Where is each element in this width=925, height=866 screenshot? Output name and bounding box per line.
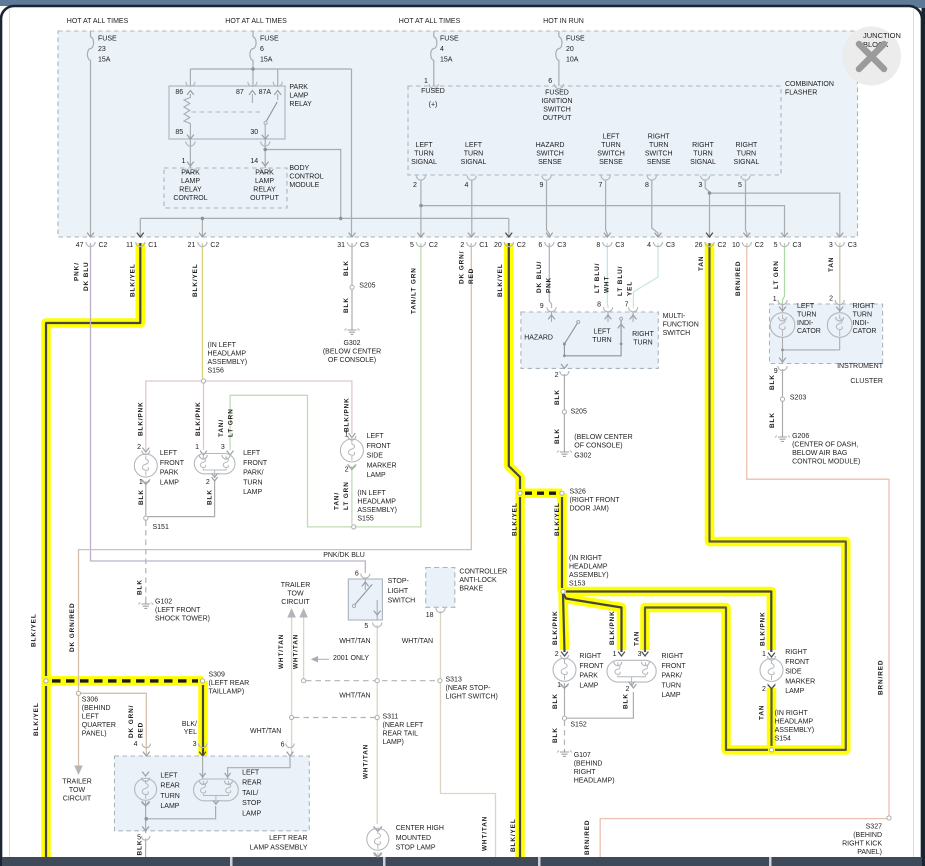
ground G102 [145, 601, 147, 604]
wire flasher pin 3 to 26 C2 [705, 180, 709, 237]
svg-text:HAZARD: HAZARD [524, 335, 553, 342]
wire BLK/PNK S156 to left front park lamp pin 2 [146, 381, 204, 450]
svg-text:TOW: TOW [287, 591, 304, 598]
svg-text:WHT: WHT [603, 276, 610, 293]
svg-text:SIGNAL: SIGNAL [734, 159, 760, 166]
svg-text:WHT/TAN: WHT/TAN [278, 634, 285, 669]
svg-text:FRONT: FRONT [662, 663, 687, 670]
svg-text:SWITCH: SWITCH [536, 151, 564, 158]
wire BLK S205 to G302 [563, 415, 565, 450]
svg-text:5: 5 [364, 623, 368, 630]
svg-text:DK BLU/: DK BLU/ [536, 261, 543, 293]
svg-text:FUSE: FUSE [440, 36, 459, 43]
svg-text:C3: C3 [848, 242, 857, 249]
svg-text:9: 9 [540, 182, 544, 189]
wire flasher pin 8 to 4 C3 [652, 180, 658, 237]
svg-text:DK GRN/: DK GRN/ [458, 251, 465, 284]
svg-text:PARK: PARK [181, 170, 200, 177]
svg-text:HOT AT ALL TIMES: HOT AT ALL TIMES [67, 18, 129, 25]
lamp right turn indicator U-R [827, 313, 852, 338]
svg-text:PANEL): PANEL) [857, 849, 882, 856]
svg-text:BRAKE: BRAKE [459, 586, 483, 593]
svg-text:SWITCH: SWITCH [543, 107, 571, 114]
wire BLK/PNK: S153 diagonal to park/turn pin 1 [563, 593, 622, 650]
svg-text:(IN LEFT: (IN LEFT [357, 490, 386, 497]
ground G302 below console [351, 327, 353, 330]
ABS pin 18 bump [436, 608, 445, 613]
svg-text:TURN: TURN [601, 142, 620, 149]
svg-text:2: 2 [137, 444, 141, 451]
svg-text:2: 2 [555, 651, 559, 658]
svg-text:1: 1 [773, 296, 777, 303]
svg-text:SENSE: SENSE [599, 159, 623, 166]
svg-text:IGNITION: IGNITION [541, 98, 572, 105]
wire BLK/PNK: S153 to right front park lamp pin 2 [563, 592, 565, 651]
wire WHT/TAN stop switch pin 5 through S313 S311 to center lamp [376, 625, 378, 824]
multi-function switch box [521, 312, 658, 368]
svg-text:WHT/TAN: WHT/TAN [402, 638, 433, 645]
svg-text:(LEFT FRONT: (LEFT FRONT [155, 607, 201, 614]
svg-text:TAILLAMP): TAILLAMP) [209, 689, 245, 696]
wire BLK left park/turn pin 2 to S151 [148, 481, 215, 517]
wire BLK/YEL highlighted: 11 C1 to S309 to bottom [46, 243, 140, 857]
wire TAN/LT GRN 5 C2 to S155 [356, 243, 421, 527]
left rear lamp assembly box [115, 756, 310, 831]
svg-text:LEFT: LEFT [242, 770, 260, 777]
svg-text:S313: S313 [446, 677, 462, 684]
svg-text:SWITCH: SWITCH [388, 598, 416, 605]
svg-text:LAMP: LAMP [662, 692, 681, 699]
wire DK GRN/RED S306 to trailer tow [78, 696, 80, 767]
wire DK GRN/RED 2 C1 to S306 [79, 243, 472, 691]
svg-text:MODULE: MODULE [289, 182, 319, 189]
wire bus drop 21 C2 [201, 218, 203, 237]
svg-text:20: 20 [566, 46, 574, 53]
svg-text:RELAY: RELAY [253, 187, 276, 194]
svg-text:85: 85 [175, 129, 183, 136]
svg-text:(BELOW CENTER: (BELOW CENTER [323, 349, 381, 356]
svg-text:FUSE: FUSE [98, 36, 117, 43]
close X strokes [859, 44, 884, 69]
splice node S326R [560, 491, 564, 495]
svg-text:LAMP: LAMP [242, 810, 261, 817]
wire BLK/PNK S156 to left side marker pin 1 [206, 381, 352, 434]
svg-text:FUSE: FUSE [566, 36, 585, 43]
svg-text:3: 3 [829, 242, 833, 249]
svg-text:SENSE: SENSE [647, 159, 671, 166]
svg-text:(BEHIND: (BEHIND [82, 705, 111, 712]
svg-text:LAMP: LAMP [160, 803, 179, 810]
lamp center high mounted stop [374, 826, 382, 830]
lamp left turn indicator U-L [770, 313, 795, 338]
svg-text:BLK: BLK [769, 374, 776, 390]
svg-text:TURN: TURN [243, 479, 262, 486]
svg-text:WHT/TAN: WHT/TAN [363, 744, 370, 779]
ground G107 [564, 749, 566, 752]
svg-text:S309: S309 [209, 672, 225, 679]
svg-text:5: 5 [410, 242, 414, 249]
svg-text:(BELOW CENTER: (BELOW CENTER [574, 434, 632, 441]
connector pin 2 C1 [468, 233, 475, 237]
svg-text:LT GRN: LT GRN [227, 408, 234, 437]
svg-text:CONTROL: CONTROL [173, 195, 207, 202]
splice node S151 [144, 516, 148, 520]
svg-text:RIGHT KICK: RIGHT KICK [842, 841, 882, 848]
wire BLK rear turn lamp pin 5 [145, 801, 147, 857]
svg-text:HEADLAMP): HEADLAMP) [574, 778, 615, 785]
svg-text:LIGHT SWITCH): LIGHT SWITCH) [446, 694, 498, 701]
svg-text:2: 2 [625, 686, 629, 693]
svg-text:S153: S153 [569, 581, 585, 588]
svg-text:SWITCH: SWITCH [663, 330, 691, 337]
connector pin 5 C3 [781, 233, 788, 237]
svg-text:5: 5 [738, 182, 742, 189]
svg-text:BLK: BLK [769, 412, 776, 428]
svg-text:C3: C3 [615, 242, 624, 249]
wire bus drop 11 C1 [139, 218, 141, 237]
svg-text:(RIGHT FRONT: (RIGHT FRONT [570, 497, 621, 504]
splice node S327 [887, 816, 891, 820]
stop-light switch internals pin 6 pin 5 [361, 574, 370, 579]
svg-text:BLK/PNK: BLK/PNK [609, 610, 616, 645]
junction dots [201, 67, 712, 220]
svg-text:FRONT: FRONT [243, 460, 268, 467]
wire BRN/RED 10 C2 to S327 loop [747, 243, 889, 816]
svg-text:SIDE: SIDE [785, 669, 802, 676]
ground G206 [782, 434, 784, 437]
svg-text:LEFT: LEFT [602, 134, 620, 141]
splice node S205a [350, 285, 354, 289]
lamp right front park [561, 652, 568, 656]
svg-text:(LEFT REAR: (LEFT REAR [209, 680, 250, 687]
svg-text:TAN: TAN [828, 257, 835, 272]
svg-text:8: 8 [596, 242, 600, 249]
svg-text:DK GRN/RED: DK GRN/RED [69, 603, 76, 652]
svg-text:SHOCK TOWER): SHOCK TOWER) [155, 616, 210, 623]
svg-text:BODY: BODY [289, 165, 309, 172]
svg-text:TURN: TURN [464, 151, 483, 158]
cluster pins 1 2 top and 9 bottom [778, 300, 787, 305]
svg-text:STOP-: STOP- [388, 578, 410, 585]
svg-text:BLK: BLK [343, 260, 350, 276]
svg-text:1: 1 [139, 479, 143, 486]
wire BLK S205 to G302 [351, 290, 353, 328]
svg-text:C3: C3 [557, 242, 566, 249]
svg-text:RIGHT: RIGHT [853, 303, 876, 310]
svg-text:ASSEMBLY): ASSEMBLY) [775, 727, 815, 734]
wire relay 30 to BCM 14 [264, 139, 266, 168]
svg-text:BLK: BLK [136, 579, 143, 595]
splice node S313M [375, 679, 379, 683]
svg-text:9: 9 [540, 303, 544, 310]
svg-text:REAR: REAR [242, 780, 261, 787]
svg-text:COMBINATION: COMBINATION [785, 81, 834, 88]
svg-text:LT GRN: LT GRN [773, 260, 780, 289]
svg-text:BLK: BLK [622, 693, 629, 709]
connector pin 11 C1 [137, 233, 144, 237]
svg-text:6: 6 [281, 742, 285, 749]
svg-text:LEFT: LEFT [243, 450, 261, 457]
svg-text:RIGHT: RIGHT [785, 649, 808, 656]
svg-text:S326: S326 [570, 489, 586, 496]
svg-text:BLK/YEL: BLK/YEL [129, 263, 136, 297]
wire BLK cluster pin 9 to S203 [782, 369, 784, 397]
svg-text:20: 20 [494, 242, 502, 249]
svg-text:WHT/TAN: WHT/TAN [339, 638, 370, 645]
wire dashed S152 to G107 [564, 721, 566, 750]
lamp left front park/turn [200, 451, 207, 455]
svg-text:BLK/YEL: BLK/YEL [554, 502, 561, 536]
2001 only arrow [312, 657, 329, 662]
svg-text:TURN: TURN [853, 311, 872, 318]
svg-text:FRONT: FRONT [160, 460, 185, 467]
svg-text:2: 2 [762, 686, 766, 693]
connector pin 21 C2 [199, 233, 206, 237]
wire fuse 4 feed [433, 31, 435, 86]
splice node S203 [780, 397, 784, 401]
svg-text:C1: C1 [148, 242, 157, 249]
wire TAN/LT GRN S155 to left park/turn pin 3 [230, 395, 351, 527]
svg-text:CONTROL MODULE): CONTROL MODULE) [792, 459, 860, 466]
svg-text:TAN: TAN [634, 631, 641, 646]
splice node S313R [438, 679, 442, 683]
MFS pins 9 8 7 top, pin 2 bottom [547, 307, 556, 312]
svg-text:DK GRN/: DK GRN/ [128, 705, 135, 738]
svg-text:YEL: YEL [626, 281, 633, 296]
svg-text:(IN LEFT: (IN LEFT [208, 342, 237, 349]
svg-text:PARK: PARK [160, 470, 179, 477]
wire TAN highlighted: 26 C2 loop to S154 [710, 243, 846, 750]
svg-text:LAMP: LAMP [243, 489, 262, 496]
svg-text:LAMP ASSEMBLY: LAMP ASSEMBLY [250, 845, 308, 852]
svg-text:BLK/PNK: BLK/PNK [195, 401, 202, 436]
svg-text:C2: C2 [517, 242, 526, 249]
svg-text:SIGNAL: SIGNAL [690, 159, 716, 166]
svg-text:RELAY: RELAY [289, 101, 312, 108]
svg-text:3: 3 [221, 444, 225, 451]
svg-text:BLK/YEL: BLK/YEL [33, 702, 40, 736]
splice node S152 [562, 716, 566, 720]
svg-text:BLK/YEL: BLK/YEL [497, 263, 504, 297]
svg-text:TAN/: TAN/ [218, 419, 225, 437]
svg-text:REAR: REAR [160, 783, 179, 790]
instrument cluster box [770, 304, 883, 364]
svg-text:BRN/RED: BRN/RED [584, 820, 591, 855]
svg-text:OF CONSOLE): OF CONSOLE) [328, 357, 376, 364]
svg-text:1: 1 [195, 444, 199, 451]
wire 87A riser [277, 69, 279, 86]
svg-text:2: 2 [206, 479, 210, 486]
svg-text:(BEHIND: (BEHIND [853, 832, 882, 839]
svg-text:SIDE: SIDE [367, 453, 384, 460]
svg-text:WHT/TAN: WHT/TAN [339, 693, 370, 700]
body control module box [164, 168, 287, 208]
splice S326 black dashes [525, 492, 557, 495]
svg-text:87A: 87A [259, 89, 272, 96]
svg-text:RELAY: RELAY [179, 187, 202, 194]
svg-text:3: 3 [193, 741, 197, 748]
svg-text:FUSED: FUSED [545, 90, 569, 97]
svg-text:7: 7 [625, 302, 629, 309]
svg-text:FUNCTION: FUNCTION [663, 322, 699, 329]
svg-text:C3: C3 [793, 242, 802, 249]
svg-text:FRONT: FRONT [579, 663, 604, 670]
wire bus drop 20 C2 [508, 218, 510, 237]
wire fuse 20 feed [558, 31, 560, 86]
svg-text:BLK: BLK [554, 389, 561, 405]
svg-text:BLK: BLK [136, 840, 143, 856]
svg-text:LIGHT: LIGHT [388, 588, 409, 595]
connector pin 26 C2 [706, 233, 713, 237]
svg-text:RIGHT: RIGHT [736, 142, 759, 149]
wire flasher pin 7 to 8 C3 [606, 180, 608, 237]
svg-text:BLK: BLK [552, 727, 559, 743]
svg-text:1: 1 [182, 158, 186, 165]
svg-text:CIRCUIT: CIRCUIT [281, 599, 310, 606]
wire TAN: side marker pin 2 to S154 [767, 688, 777, 750]
wire dashed S311 link [294, 717, 375, 719]
svg-text:14: 14 [250, 158, 258, 165]
svg-text:TURN: TURN [662, 682, 681, 689]
svg-text:BLK/: BLK/ [182, 721, 197, 728]
flasher bottom pins 2 4 9 7 8 3 5 [416, 176, 425, 181]
faint inner borders [9, 9, 11, 857]
svg-text:C3: C3 [360, 242, 369, 249]
svg-text:4: 4 [134, 741, 138, 748]
svg-text:(+): (+) [429, 102, 438, 109]
splice node S155 [352, 525, 356, 529]
svg-text:S203: S203 [790, 395, 806, 402]
connector pin 20 C2 [505, 233, 512, 237]
svg-text:HOT AT ALL TIMES: HOT AT ALL TIMES [399, 18, 461, 25]
svg-text:2: 2 [413, 182, 417, 189]
svg-text:G107: G107 [574, 752, 591, 759]
splice node S309L [44, 679, 48, 683]
svg-text:87: 87 [236, 89, 244, 96]
svg-text:MARKER: MARKER [367, 462, 397, 469]
svg-text:TAN: TAN [759, 705, 766, 720]
svg-text:BLK: BLK [138, 489, 145, 505]
svg-text:FUSE: FUSE [260, 36, 279, 43]
svg-text:PARK: PARK [289, 84, 308, 91]
splice node S326L [518, 491, 522, 495]
lamp left front park [142, 448, 149, 452]
svg-text:TRAILER: TRAILER [281, 582, 311, 589]
svg-text:BLK: BLK [207, 489, 214, 505]
svg-text:WHT/TAN: WHT/TAN [481, 816, 488, 851]
svg-text:PARK: PARK [579, 673, 598, 680]
svg-text:8: 8 [645, 182, 649, 189]
svg-text:PANEL): PANEL) [82, 731, 107, 738]
svg-text:LT BLU/: LT BLU/ [594, 263, 601, 293]
svg-text:INDI-: INDI- [853, 320, 870, 327]
svg-text:S151: S151 [153, 524, 169, 531]
svg-text:RIGHT: RIGHT [632, 331, 655, 338]
svg-text:LAMP: LAMP [579, 682, 598, 689]
svg-text:BLK/PNK: BLK/PNK [760, 611, 767, 646]
svg-text:S154: S154 [775, 736, 791, 743]
wire BRN/RED S327 to bottom [600, 819, 886, 857]
svg-text:CONTROL: CONTROL [289, 174, 323, 181]
svg-text:(CENTER OF DASH,: (CENTER OF DASH, [792, 442, 858, 449]
svg-text:LEFT: LEFT [367, 433, 385, 440]
svg-text:DOOR JAM): DOOR JAM) [570, 506, 609, 513]
svg-text:SIGNAL: SIGNAL [461, 159, 487, 166]
wire flasher pin 9 to 6 C3 [547, 180, 550, 237]
svg-text:31: 31 [337, 242, 345, 249]
svg-text:11: 11 [126, 242, 133, 249]
svg-text:1: 1 [424, 78, 428, 85]
trailer tow arrows middle (up) [287, 608, 296, 618]
svg-text:OUTPUT: OUTPUT [543, 115, 573, 122]
wire relay 85 to BCM 1 [189, 139, 191, 168]
svg-text:LT BLU/: LT BLU/ [617, 266, 624, 296]
lamp right front side marker [768, 653, 775, 657]
svg-text:86: 86 [175, 89, 183, 96]
wire WHT/TAN ABS pin 18 through S313 to bottom [441, 611, 496, 857]
svg-text:RIGHT: RIGHT [692, 142, 715, 149]
svg-text:BLK/PNK: BLK/PNK [343, 397, 350, 432]
svg-text:9: 9 [774, 368, 778, 375]
svg-text:S327: S327 [866, 824, 882, 831]
combination flasher box [408, 86, 781, 175]
svg-text:TAN: TAN [698, 256, 705, 271]
svg-text:RIGHT: RIGHT [574, 769, 597, 776]
svg-text:OF CONSOLE): OF CONSOLE) [574, 443, 622, 450]
wire flasher pin 2 branch y=205.6 to 5 C3 [421, 206, 785, 237]
svg-text:CATOR: CATOR [797, 328, 821, 335]
wire fuse 23 feed [90, 31, 92, 237]
junction dots 2 [145, 817, 149, 821]
svg-text:4: 4 [647, 242, 651, 249]
svg-text:LAMP: LAMP [367, 472, 386, 479]
junction block box [58, 31, 858, 237]
svg-text:CENTER HIGH: CENTER HIGH [396, 825, 444, 832]
svg-text:G206: G206 [792, 433, 809, 440]
controller anti-lock brake box [426, 568, 455, 608]
wire BLK/PNK S156 to left park/turn pin 1 [203, 384, 205, 451]
svg-text:LEFT: LEFT [593, 329, 611, 336]
svg-text:LAMP): LAMP) [383, 739, 404, 746]
svg-text:TURN: TURN [797, 311, 816, 318]
svg-text:(IN RIGHT: (IN RIGHT [775, 710, 809, 717]
connector pin 5 C2 [418, 233, 425, 237]
svg-text:BLK/YEL: BLK/YEL [30, 613, 37, 647]
svg-text:TURN: TURN [649, 142, 668, 149]
svg-text:STOP LAMP: STOP LAMP [396, 845, 436, 852]
svg-text:LT GRN: LT GRN [343, 481, 350, 510]
splice node S313L [302, 679, 306, 683]
svg-text:HAZARD: HAZARD [536, 142, 565, 149]
splice node S309R [201, 679, 205, 683]
svg-text:1: 1 [345, 432, 349, 439]
svg-text:LAMP: LAMP [785, 688, 804, 695]
wire park lamp bus y=218.4 [140, 217, 509, 219]
wire BLK S203 to G206 [782, 402, 784, 435]
bottom dark bar [2, 857, 922, 866]
svg-text:S306: S306 [82, 697, 98, 704]
svg-text:2: 2 [829, 296, 833, 303]
svg-text:STOP: STOP [242, 800, 261, 807]
svg-text:TAN/: TAN/ [333, 492, 340, 510]
connector pin 6 C3 [546, 233, 553, 237]
svg-text:ANTI-LOCK: ANTI-LOCK [459, 577, 497, 584]
svg-text:C3: C3 [666, 242, 675, 249]
svg-text:2001 ONLY: 2001 ONLY [333, 655, 369, 662]
wire DK GRN/RED S306 to rear turn lamp pin 4 [81, 693, 147, 755]
svg-text:LAMP: LAMP [181, 178, 200, 185]
svg-text:LEFT: LEFT [415, 142, 433, 149]
